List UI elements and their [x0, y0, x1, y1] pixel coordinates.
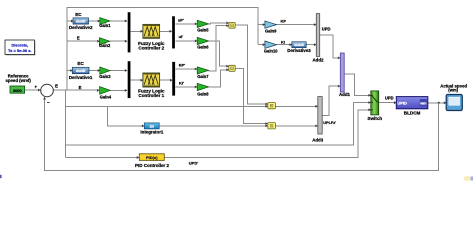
svg-text:Gain5: Gain5: [197, 27, 209, 32]
svg-text:Add2: Add2: [313, 57, 325, 62]
svg-text:Gain7: Gain7: [197, 74, 209, 79]
svg-text:KP: KP: [281, 18, 287, 23]
svg-text:Add3: Add3: [312, 137, 324, 142]
svg-text:Controller 2: Controller 2: [138, 46, 164, 51]
svg-text:E: E: [77, 35, 80, 40]
svg-text:Gain1: Gain1: [99, 23, 111, 28]
svg-text:UPI-Fz': UPI-Fz': [323, 121, 336, 125]
svg-text:UPD': UPD': [189, 160, 198, 165]
svg-text:EC: EC: [75, 12, 82, 17]
svg-text:Derivative1: Derivative1: [69, 75, 93, 80]
svg-text:−: −: [47, 100, 50, 105]
svg-text:Integrator1: Integrator1: [140, 129, 163, 134]
svg-text:KI': KI': [179, 81, 184, 86]
svg-text:3000: 3000: [13, 88, 23, 93]
svg-text:Controller 1: Controller 1: [138, 93, 164, 98]
svg-text:PID Controller 2: PID Controller 2: [135, 163, 170, 168]
svg-text:KI: KI: [281, 40, 285, 45]
svg-text:Gain9: Gain9: [265, 29, 277, 34]
svg-text:du/dt: du/dt: [294, 42, 304, 47]
svg-text:du/dt: du/dt: [76, 68, 86, 73]
svg-text:speed (wref): speed (wref): [6, 78, 32, 83]
svg-text:uI': uI': [179, 34, 184, 39]
svg-text:Gain6: Gain6: [197, 44, 209, 49]
svg-text:Gain2: Gain2: [99, 43, 111, 48]
svg-text:PID(s): PID(s): [146, 155, 158, 160]
svg-text:uP': uP': [178, 18, 184, 23]
svg-text:(wm): (wm): [448, 88, 458, 93]
svg-text:Gain4: Gain4: [100, 94, 112, 99]
svg-text:UPD: UPD: [322, 27, 331, 32]
svg-text:UPD: UPD: [385, 96, 394, 101]
svg-text:Switch: Switch: [367, 116, 382, 121]
svg-text:BLDCM: BLDCM: [404, 110, 421, 115]
svg-text:wm: wm: [419, 102, 426, 106]
svg-text:Gain3: Gain3: [99, 74, 111, 79]
svg-text:Add1: Add1: [339, 92, 351, 97]
svg-text:E: E: [79, 85, 82, 90]
svg-text:EC: EC: [77, 61, 84, 66]
svg-text:UPID: UPID: [397, 101, 407, 106]
svg-text:du/dt: du/dt: [76, 18, 86, 23]
svg-text:Derivative3: Derivative3: [287, 48, 311, 53]
svg-text:Ts = 5e-06 s.: Ts = 5e-06 s.: [8, 48, 32, 53]
svg-text:Derivative2: Derivative2: [69, 25, 93, 30]
svg-text:E: E: [55, 84, 58, 89]
svg-text:1/s: 1/s: [149, 125, 154, 129]
svg-text:KP': KP': [179, 63, 186, 68]
svg-text:Gain10: Gain10: [264, 48, 278, 53]
svg-text:Discrete,: Discrete,: [11, 42, 28, 47]
svg-text:Gain8: Gain8: [197, 91, 209, 96]
